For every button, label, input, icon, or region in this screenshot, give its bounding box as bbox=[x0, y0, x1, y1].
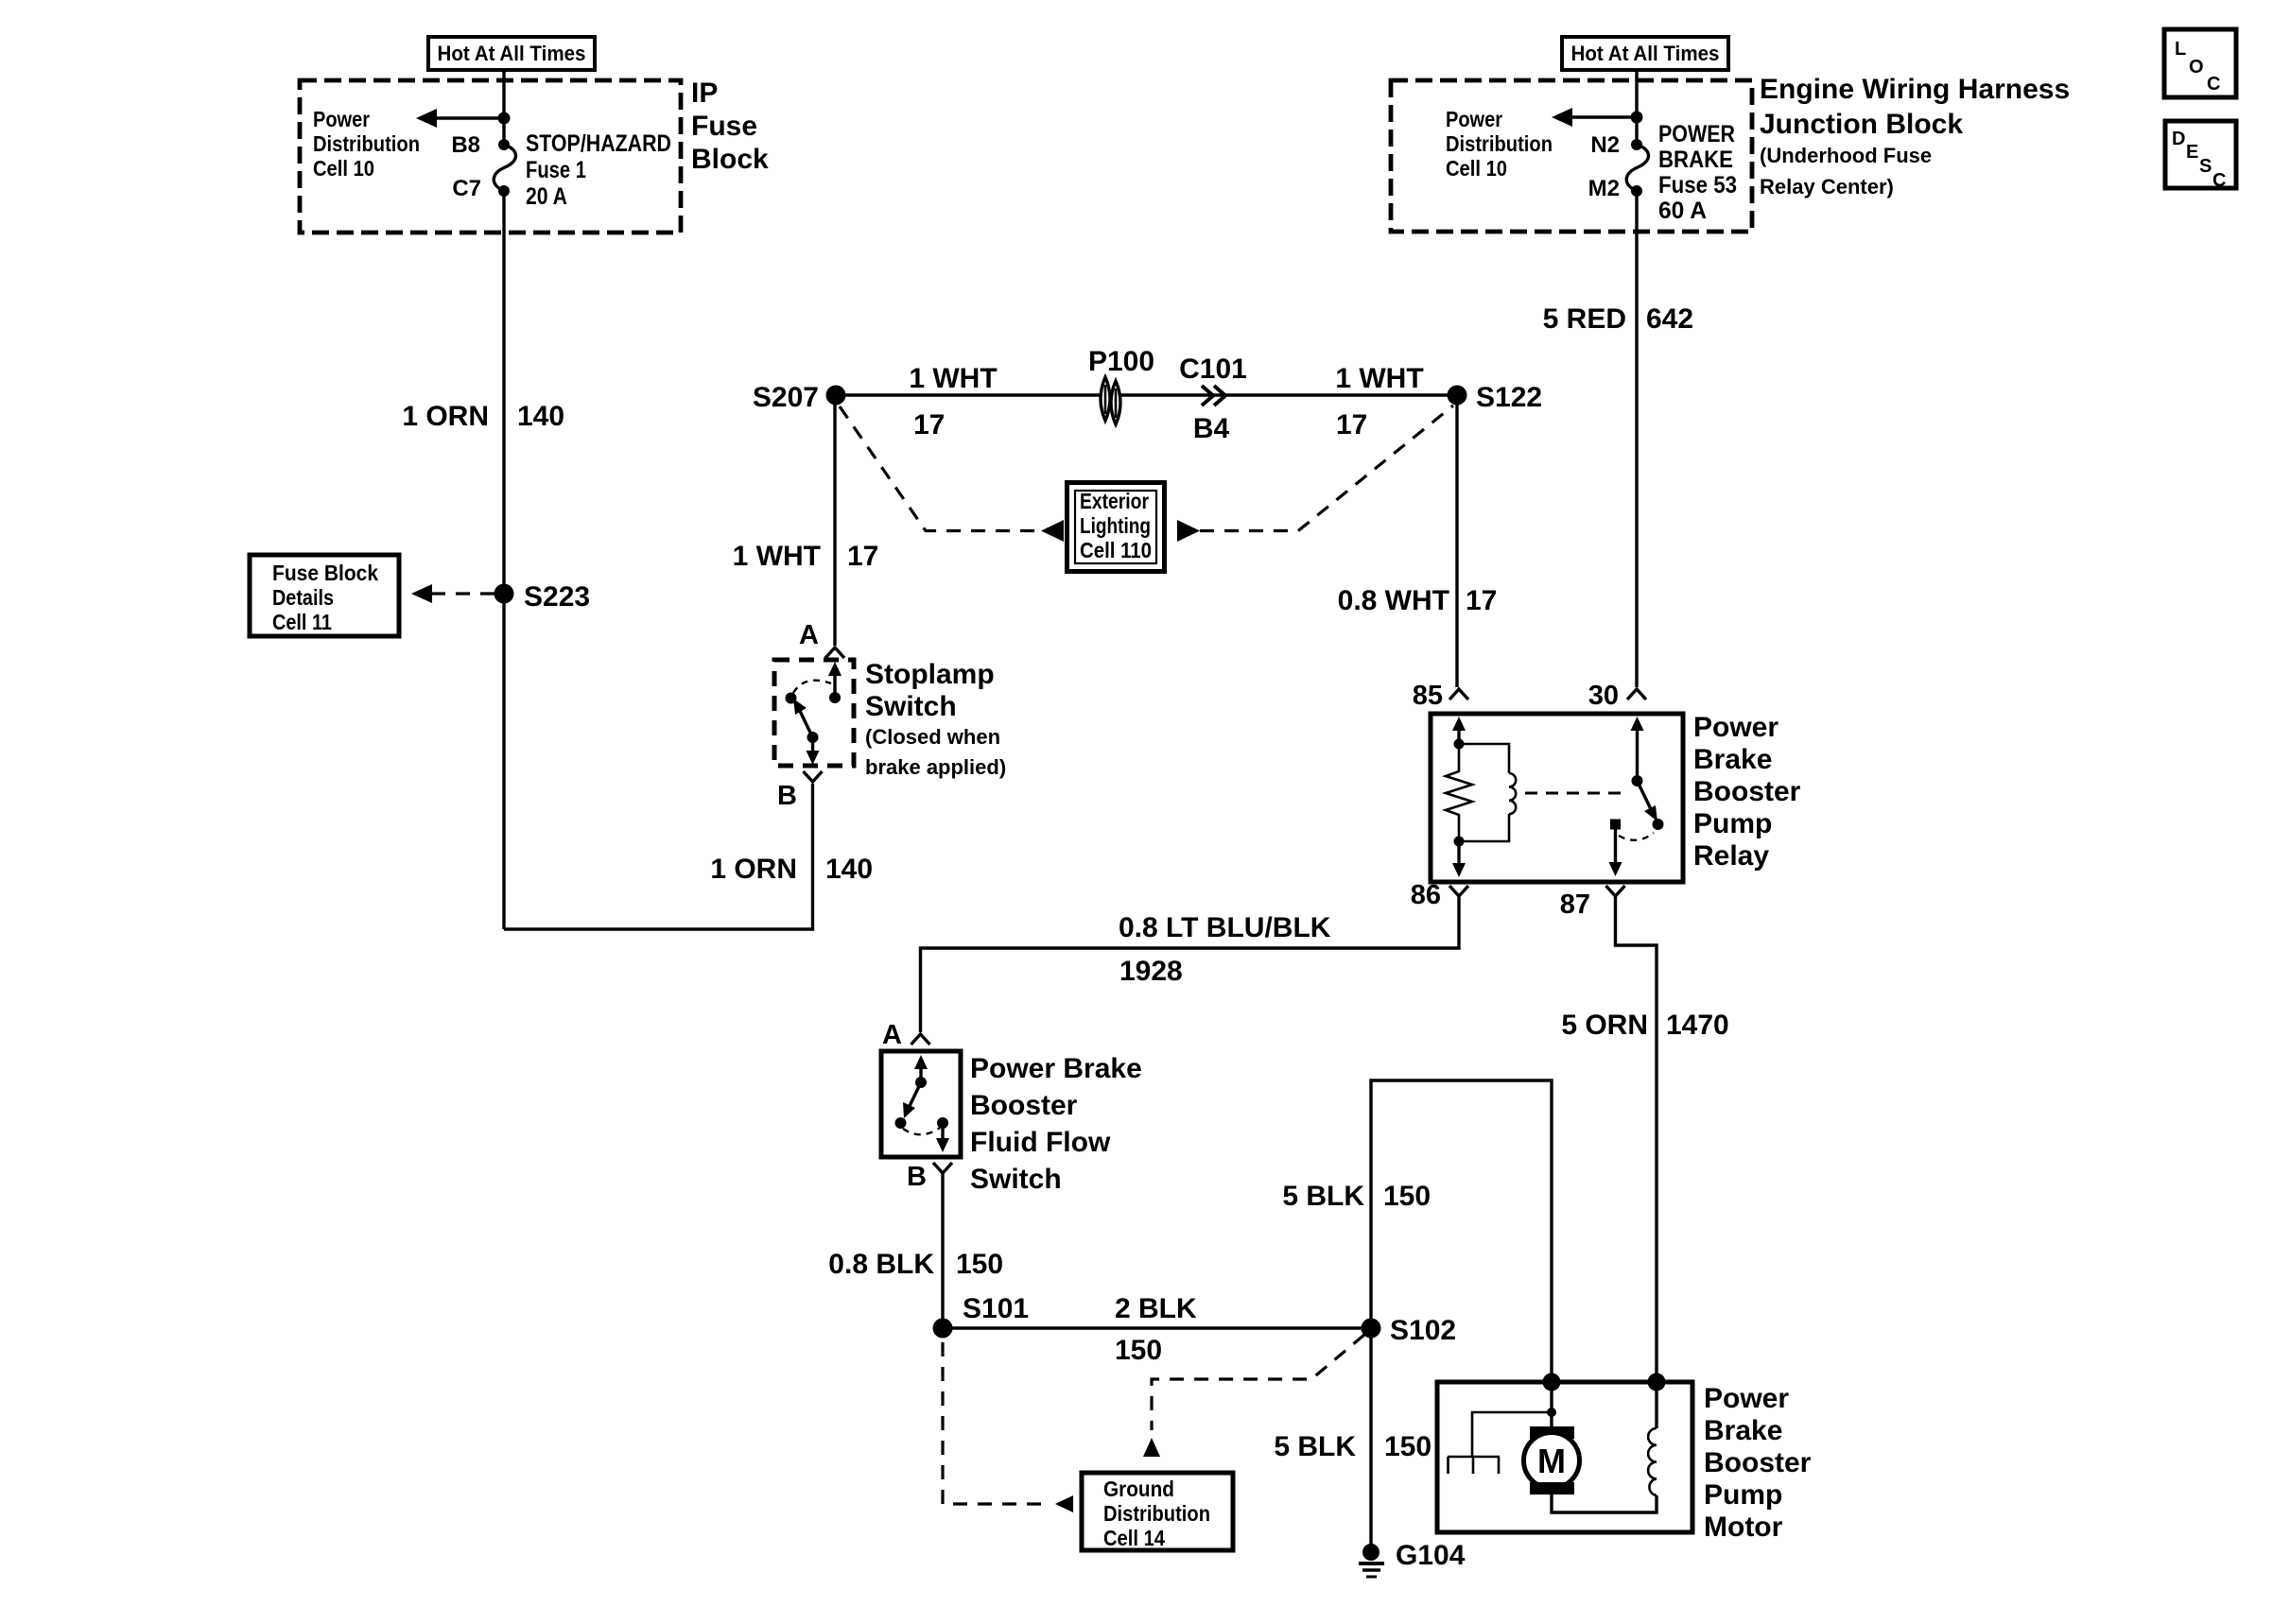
IP Fuse Block name bbox=[691, 78, 769, 175]
fuse STOP/HAZARD Fuse 1 20A (element symbol) bbox=[494, 145, 515, 191]
svg-text:P100: P100 bbox=[1088, 346, 1154, 377]
svg-text:86: 86 bbox=[1411, 880, 1441, 910]
wire from Hot At All Times into fuse N2 bbox=[1635, 70, 1638, 145]
svg-text:60 A: 60 A bbox=[1658, 198, 1707, 224]
svg-text:Cell 14: Cell 14 bbox=[1103, 1526, 1165, 1550]
Fuse Block Details Cell 11 box bbox=[250, 555, 399, 636]
svg-text:Relay: Relay bbox=[1693, 840, 1769, 872]
svg-text:1 WHT: 1 WHT bbox=[1335, 363, 1423, 394]
fuse value label bbox=[526, 130, 671, 210]
wire label 0.8 LT BLU/BLK / 1928 bbox=[1119, 912, 1331, 987]
svg-text:1 WHT: 1 WHT bbox=[909, 363, 997, 394]
relay fixed contact dot (87) bbox=[1610, 820, 1621, 830]
Ground Distribution Cell 14 box bbox=[1082, 1473, 1233, 1550]
svg-text:Motor: Motor bbox=[1704, 1512, 1783, 1543]
wire 5 BLK 150 upper (motor to S102) bbox=[1371, 1080, 1552, 1382]
ground G104 bbox=[1359, 1540, 1466, 1577]
wire label 1 WHT / 17 (right segment) bbox=[1335, 363, 1423, 441]
svg-text:2 BLK: 2 BLK bbox=[1115, 1293, 1197, 1324]
svg-text:Block: Block bbox=[691, 144, 769, 175]
svg-text:S223: S223 bbox=[524, 581, 590, 613]
svg-text:C7: C7 bbox=[452, 176, 481, 201]
svg-text:Cell 10: Cell 10 bbox=[1446, 156, 1507, 181]
svg-text:5 ORN: 5 ORN bbox=[1561, 1010, 1648, 1041]
svg-text:Exterior: Exterior bbox=[1080, 489, 1149, 513]
svg-text:Switch: Switch bbox=[865, 691, 957, 722]
svg-text:Power: Power bbox=[1693, 712, 1778, 743]
svg-text:Distribution: Distribution bbox=[1103, 1501, 1210, 1526]
svg-text:Fuse: Fuse bbox=[691, 111, 757, 142]
node S223 bbox=[495, 584, 514, 604]
motor name bbox=[1704, 1383, 1812, 1543]
arrow to Power Distribution (right) bbox=[1552, 108, 1637, 127]
relay switch arm tip dot bbox=[1653, 819, 1664, 830]
connector chevron 30 bbox=[1627, 689, 1646, 700]
dashed reference from Exterior Lighting to S122 bbox=[1200, 406, 1453, 531]
svg-text:O: O bbox=[2189, 57, 2204, 78]
node S207 bbox=[826, 386, 846, 406]
svg-text:150: 150 bbox=[1383, 1181, 1431, 1212]
svg-text:17: 17 bbox=[1466, 585, 1497, 616]
svg-text:17: 17 bbox=[913, 409, 945, 441]
relay box bbox=[1431, 714, 1683, 882]
switch arm with arrowhead (stoplamp) bbox=[793, 699, 813, 737]
motor case ground branch bbox=[1472, 1412, 1552, 1457]
svg-text:E: E bbox=[2186, 142, 2198, 163]
label box "Hot At All Times" (right) bbox=[1562, 37, 1728, 70]
svg-text:Brake: Brake bbox=[1693, 744, 1772, 775]
fuse terminal dot N2 bbox=[1631, 139, 1642, 150]
fluid switch arm with arrowhead bbox=[903, 1082, 921, 1118]
svg-text:Hot At All Times: Hot At All Times bbox=[438, 42, 586, 65]
svg-text:C: C bbox=[2212, 170, 2226, 191]
svg-text:Fluid Flow: Fluid Flow bbox=[970, 1127, 1111, 1158]
svg-text:B: B bbox=[777, 781, 797, 811]
svg-text:1470: 1470 bbox=[1666, 1010, 1729, 1041]
svg-text:0.8 WHT: 0.8 WHT bbox=[1338, 585, 1449, 616]
svg-text:Junction Block: Junction Block bbox=[1760, 109, 1963, 140]
connector chevron 85 bbox=[1449, 689, 1468, 700]
svg-text:5 BLK: 5 BLK bbox=[1282, 1181, 1364, 1212]
motor brush bottom bbox=[1530, 1482, 1574, 1494]
svg-text:140: 140 bbox=[825, 854, 873, 885]
svg-text:150: 150 bbox=[1384, 1431, 1431, 1462]
wire label 1 WHT / 17 (left segment) bbox=[909, 363, 997, 441]
arrow out of Exterior Lighting (right) bbox=[1177, 520, 1200, 542]
fluid switch hinge dot bbox=[915, 1077, 927, 1088]
motor feed junction dot (right) bbox=[1648, 1373, 1666, 1391]
arrow to Ground Distribution (top) bbox=[1143, 1438, 1160, 1457]
svg-text:17: 17 bbox=[1336, 409, 1367, 441]
motor bottom wire to field coil bbox=[1552, 1494, 1657, 1512]
fluid switch fixed contact dot (left) bbox=[895, 1117, 907, 1129]
switch contact arrow up (A side) bbox=[828, 662, 842, 698]
svg-text:B: B bbox=[907, 1162, 927, 1192]
svg-text:85: 85 bbox=[1413, 681, 1443, 711]
svg-text:5 RED: 5 RED bbox=[1543, 303, 1626, 335]
svg-text:B4: B4 bbox=[1193, 413, 1230, 444]
svg-text:L: L bbox=[2175, 39, 2186, 60]
fuse POWER BRAKE Fuse 53 60A (element symbol) bbox=[1626, 145, 1648, 191]
node S122 bbox=[1448, 386, 1467, 406]
svg-text:D: D bbox=[2172, 129, 2185, 149]
svg-text:G104: G104 bbox=[1396, 1540, 1466, 1571]
svg-text:Cell 10: Cell 10 bbox=[313, 156, 374, 181]
svg-text:(Closed when: (Closed when bbox=[865, 725, 1000, 749]
junction block name bbox=[1760, 74, 2070, 199]
svg-text:Booster: Booster bbox=[970, 1090, 1078, 1121]
inline connector P100 bbox=[1101, 377, 1120, 424]
svg-text:Power: Power bbox=[1704, 1383, 1789, 1414]
svg-text:Cell 110: Cell 110 bbox=[1080, 538, 1152, 562]
wire label 1 WHT | 17 bbox=[733, 541, 879, 572]
svg-text:Booster: Booster bbox=[1704, 1447, 1812, 1478]
svg-text:20 A: 20 A bbox=[526, 183, 567, 210]
fluid switch contact dot (right) bbox=[937, 1117, 948, 1129]
wire bottom run to stoplamp switch B bbox=[504, 784, 813, 929]
svg-text:Power: Power bbox=[1446, 107, 1502, 131]
svg-text:0.8 LT BLU/BLK: 0.8 LT BLU/BLK bbox=[1119, 912, 1331, 943]
wire 1 ORN 140 from fuse C7 down to corner bbox=[502, 191, 505, 929]
svg-text:Booster: Booster bbox=[1693, 776, 1801, 807]
relay branch dot top bbox=[1454, 739, 1465, 750]
fuse terminal dot B8 bbox=[498, 139, 510, 150]
dashed travel arc (stoplamp) bbox=[793, 681, 831, 693]
wire S207 to S122 bbox=[836, 393, 1457, 396]
svg-text:Brake: Brake bbox=[1704, 1415, 1782, 1446]
wire 0.8 WHT from S122 down to relay 85 bbox=[1455, 405, 1458, 687]
svg-text:A: A bbox=[799, 620, 819, 650]
svg-text:30: 30 bbox=[1588, 681, 1619, 711]
svg-text:1 WHT: 1 WHT bbox=[733, 541, 821, 572]
fluid switch output arrow down bbox=[936, 1123, 949, 1152]
svg-text:S122: S122 bbox=[1476, 382, 1542, 413]
svg-text:Lighting: Lighting bbox=[1080, 513, 1151, 538]
LOC reference box bbox=[2164, 29, 2236, 97]
Exterior Lighting Cell 110 box bbox=[1067, 483, 1165, 572]
wire label 5 ORN | 1470 bbox=[1561, 1010, 1728, 1041]
wire label 0.8 WHT | 17 bbox=[1338, 585, 1498, 616]
motor feed junction dot (left) bbox=[1543, 1373, 1561, 1391]
arrow into Exterior Lighting (left) bbox=[1041, 520, 1064, 542]
switch hinge dot (A) bbox=[829, 692, 841, 703]
node S102 bbox=[1362, 1319, 1381, 1339]
svg-text:87: 87 bbox=[1560, 890, 1590, 920]
fluid flow switch box bbox=[881, 1051, 961, 1157]
motor case symbol bbox=[1448, 1457, 1500, 1474]
wire label 5 BLK | 150 (upper) bbox=[1282, 1181, 1431, 1212]
relay switch output arrow down (pin 87) bbox=[1609, 824, 1622, 876]
motor field coil bbox=[1648, 1382, 1657, 1495]
fluid switch contact arrow up bbox=[914, 1055, 928, 1082]
wire 0.8 BLK 150 from B to S101 bbox=[941, 1173, 944, 1328]
connector chevron A (stoplamp) bbox=[825, 648, 844, 658]
wire 5 BLK 150 lower (S102 to G104) bbox=[1369, 1328, 1372, 1551]
wire 2 BLK 150 bbox=[943, 1326, 1371, 1329]
Power Distribution Cell 10 text (left box) bbox=[313, 107, 420, 181]
wire 5 ORN 1470 bbox=[1616, 896, 1657, 1382]
label box "Hot At All Times" (left) bbox=[428, 37, 595, 70]
svg-text:Distribution: Distribution bbox=[1446, 131, 1553, 156]
svg-text:17: 17 bbox=[847, 541, 878, 572]
fuse terminal dot M2 bbox=[1631, 185, 1642, 197]
svg-text:IP: IP bbox=[691, 78, 718, 109]
dashed link coil to switch bbox=[1525, 792, 1628, 795]
svg-text:140: 140 bbox=[517, 401, 564, 432]
wire label 0.8 BLK | 150 bbox=[828, 1249, 1003, 1280]
relay coil bbox=[1459, 744, 1516, 841]
node S101 bbox=[933, 1319, 953, 1339]
svg-text:Engine Wiring Harness: Engine Wiring Harness bbox=[1760, 74, 2070, 105]
arrow to Power Distribution bbox=[416, 109, 504, 128]
relay switch hinge dot bbox=[1632, 775, 1643, 786]
relay coil output arrow down (pin 86) bbox=[1452, 841, 1466, 877]
dashed travel arc (fluid flow) bbox=[903, 1128, 940, 1134]
DESC reference box bbox=[2165, 121, 2236, 191]
connector C101 pass-through symbol bbox=[1202, 386, 1225, 406]
svg-text:Fuse Block: Fuse Block bbox=[272, 561, 379, 585]
svg-text:M2: M2 bbox=[1588, 176, 1620, 201]
wire label 5 BLK | 150 (lower) bbox=[1274, 1431, 1431, 1462]
fluid flow switch name bbox=[970, 1053, 1142, 1195]
svg-text:Stoplamp: Stoplamp bbox=[865, 659, 995, 690]
svg-text:POWER: POWER bbox=[1658, 121, 1735, 147]
Stoplamp Switch name bbox=[865, 659, 1006, 779]
fuse value label (right) bbox=[1658, 121, 1737, 224]
dashed reference from S207 to Exterior Lighting bbox=[840, 406, 1036, 531]
svg-text:1 ORN: 1 ORN bbox=[402, 401, 489, 432]
relay branch dot bottom bbox=[1454, 837, 1465, 847]
motor armature feed wire bbox=[1550, 1382, 1553, 1426]
svg-text:C: C bbox=[2207, 74, 2220, 95]
svg-text:Switch: Switch bbox=[970, 1164, 1062, 1195]
svg-text:brake applied): brake applied) bbox=[865, 755, 1006, 779]
Stoplamp Switch dashed box bbox=[774, 660, 854, 766]
connector chevron 87 bbox=[1606, 886, 1625, 896]
relay resistor R bbox=[1446, 744, 1472, 841]
connector chevron A (fluid flow) bbox=[911, 1034, 930, 1045]
svg-text:S102: S102 bbox=[1390, 1315, 1456, 1346]
svg-text:Fuse 53: Fuse 53 bbox=[1658, 172, 1737, 199]
svg-text:Pump: Pump bbox=[1704, 1479, 1782, 1511]
svg-text:Distribution: Distribution bbox=[313, 131, 420, 156]
svg-text:BRAKE: BRAKE bbox=[1658, 147, 1733, 173]
fuse terminal dot C7 bbox=[498, 185, 510, 197]
dashed reference S101 to Ground Distribution bbox=[943, 1342, 1050, 1504]
svg-text:A: A bbox=[882, 1020, 902, 1050]
wire label 1 ORN | 140 (lower) bbox=[710, 854, 873, 885]
svg-text:C101: C101 bbox=[1179, 354, 1247, 385]
svg-text:Relay Center): Relay Center) bbox=[1760, 175, 1894, 199]
junction dot at arrow bbox=[498, 112, 511, 125]
switch fixed contact dot (left) bbox=[786, 693, 797, 704]
svg-text:Power Brake: Power Brake bbox=[970, 1053, 1142, 1084]
relay name bbox=[1693, 712, 1801, 872]
relay switch arm (open) with arrowhead bbox=[1638, 781, 1658, 821]
svg-text:Pump: Pump bbox=[1693, 808, 1772, 839]
wire 1 WHT from S207 down to switch A bbox=[833, 405, 836, 646]
svg-text:S101: S101 bbox=[963, 1293, 1029, 1324]
svg-text:Power: Power bbox=[313, 107, 370, 131]
wire 0.8 LT BLU/BLK 1928 bbox=[921, 896, 1460, 1032]
switch contact arrow down (B side) bbox=[807, 737, 820, 765]
Engine Wiring Harness Junction Block dashed outline bbox=[1391, 80, 1752, 232]
wire label 2 BLK / 150 bbox=[1115, 1293, 1197, 1366]
dashed travel arc (relay) bbox=[1619, 833, 1654, 840]
wire label 1 ORN | 140 bbox=[402, 401, 564, 432]
svg-text:(Underhood Fuse: (Underhood Fuse bbox=[1760, 144, 1932, 167]
connector chevron B (fluid flow) bbox=[933, 1163, 952, 1173]
svg-text:B8: B8 bbox=[451, 132, 480, 158]
svg-text:642: 642 bbox=[1646, 303, 1693, 335]
svg-text:Details: Details bbox=[272, 585, 334, 610]
junction dot at arrow (right) bbox=[1631, 112, 1643, 124]
wire 5 RED 642 from fuse M2 down to relay 30 bbox=[1635, 191, 1638, 687]
svg-text:M: M bbox=[1537, 1442, 1566, 1480]
svg-text:S207: S207 bbox=[753, 382, 819, 413]
svg-text:0.8 BLK: 0.8 BLK bbox=[828, 1249, 934, 1280]
svg-text:Hot At All Times: Hot At All Times bbox=[1571, 42, 1720, 65]
svg-text:Fuse 1: Fuse 1 bbox=[526, 157, 586, 183]
svg-text:STOP/HAZARD: STOP/HAZARD bbox=[526, 130, 671, 157]
motor case tap dot bbox=[1547, 1408, 1556, 1417]
svg-text:Ground: Ground bbox=[1103, 1477, 1174, 1501]
motor armature circle with M bbox=[1524, 1433, 1580, 1489]
Power Distribution Cell 10 text (right box) bbox=[1446, 107, 1553, 181]
svg-text:150: 150 bbox=[956, 1249, 1003, 1280]
arrow to Ground Distribution (left) bbox=[1055, 1495, 1073, 1512]
wire label 5 RED | 642 bbox=[1543, 303, 1693, 335]
switch arm pivot dot (B side) bbox=[807, 732, 819, 743]
svg-text:5 BLK: 5 BLK bbox=[1274, 1431, 1356, 1462]
svg-text:1 ORN: 1 ORN bbox=[710, 854, 797, 885]
IP Fuse Block dashed outline bbox=[300, 80, 681, 233]
connector chevron 86 bbox=[1449, 886, 1468, 896]
dashed reference S102 to Ground Distribution bbox=[1152, 1335, 1364, 1430]
relay coil feed arrow up (pin 85) bbox=[1452, 717, 1466, 744]
svg-text:Cell 11: Cell 11 bbox=[272, 610, 332, 634]
motor brush top bbox=[1530, 1426, 1574, 1439]
relay switch feed arrow up (pin 30) bbox=[1631, 717, 1644, 781]
dashed arrow to Fuse Block Details bbox=[411, 584, 495, 603]
svg-text:N2: N2 bbox=[1590, 132, 1620, 158]
svg-text:1928: 1928 bbox=[1119, 956, 1183, 987]
motor box bbox=[1437, 1382, 1692, 1532]
svg-text:S: S bbox=[2199, 156, 2212, 177]
svg-text:150: 150 bbox=[1115, 1335, 1162, 1366]
wire from Hot At All Times into fuse B8 bbox=[502, 70, 505, 145]
connector chevron B (stoplamp) bbox=[804, 771, 823, 782]
